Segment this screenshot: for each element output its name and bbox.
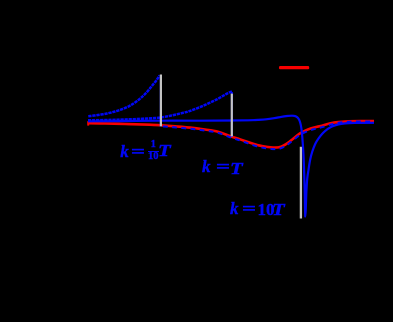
label k = T bbox=[202, 158, 211, 175]
red exact solution curve bbox=[88, 121, 374, 148]
label k = 1/10 T bbox=[120, 143, 129, 160]
blue curve B (k=T) rising segment bbox=[88, 92, 232, 121]
label k = 10T bbox=[230, 200, 239, 217]
blue curve C (k=10T) with hump, plunge and recovery bbox=[88, 116, 374, 217]
gray drop line 2 (k=T) bbox=[231, 94, 233, 137]
legend red line sample bbox=[279, 66, 309, 69]
blue curve A (k=1/10T) vertical drop at gray line 1 bbox=[160, 76, 162, 127]
red curve start cap tick bbox=[87, 121, 89, 125]
dashed blue discrete curve riding on red (after drops) bbox=[163, 122, 374, 150]
blue curve A (k=1/10T) rising segment bbox=[88, 75, 159, 116]
gray drop line 1 (k=1/10T) bbox=[160, 75, 162, 127]
gray drop line 3 (k=10T) bbox=[300, 147, 302, 219]
blue curve B (k=T) vertical drop at gray line 2 bbox=[231, 92, 233, 137]
